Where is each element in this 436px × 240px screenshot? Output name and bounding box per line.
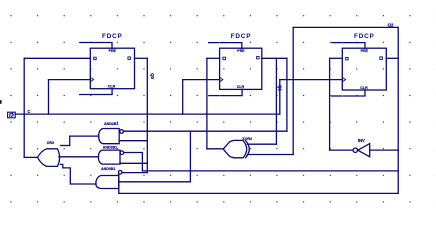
wire AND1 inverted input long [124,130,287,132]
wire INV input [370,149,399,151]
wire XOR output [207,148,223,150]
wire net Q2 right vertical [397,27,399,193]
wire AND3 output dogleg to OR3 in3 [60,164,96,184]
svg-text:CLR: CLR [360,86,368,90]
wire XOR in2 [248,154,294,156]
wire U2 C pin [183,79,220,81]
svg-text:PRE: PRE [109,49,117,53]
wire XOR out to U2 D vertical [206,58,208,149]
gate OR3 [38,149,60,167]
wire U3 CLR dash [332,95,342,97]
wire U3 PRE dash [332,42,342,44]
wire U3 CLR [343,90,365,96]
gate XOR2 [223,140,249,157]
svg-text:INV: INV [358,138,365,143]
wire U1 Q pin [135,57,148,59]
svg-text:Q2: Q2 [388,23,394,28]
wire long net y171 [142,170,398,172]
wire net Q2 top feedback [293,26,398,28]
wire net Q1 drop to AND1 input [286,58,288,131]
wire U2 D pin [207,57,220,59]
svg-text:AND3B1: AND3B1 [101,167,115,171]
flip-flop U1 FDCP [90,48,134,88]
wire U1 PRE [91,43,113,49]
wire U1 D pin [24,57,90,59]
svg-text:FDCP: FDCP [354,33,375,40]
ruler tick left edge [0,100,2,104]
svg-text:FDCP: FDCP [102,33,123,40]
svg-text:Q0: Q0 [150,73,155,79]
svg-text:FDCP: FDCP [231,33,252,40]
wire OR3 out to U1 D vertical [23,58,25,157]
svg-text:AND2B1: AND2B1 [103,146,117,150]
svg-text:Q1: Q1 [277,85,282,91]
wire clock riser to U3 C [279,80,281,115]
svg-text:XOR2: XOR2 [242,137,252,141]
wire OR3 output [24,156,37,158]
wire AND1 in2 from Q0 [119,140,147,142]
svg-text:CLR: CLR [237,85,245,89]
gate INV [353,144,370,157]
wire drop to AND3 mid input [189,131,191,182]
gate U6 AND3B1 [96,171,122,194]
wire AND3 inverted input [122,172,147,174]
wire AND2 inverted input jog [124,153,143,171]
svg-text:C: C [27,109,30,114]
wire OR3 in1 [61,145,70,147]
port C [8,112,16,118]
wire U1 C pin [49,79,91,81]
wire AND1 output [70,135,99,137]
gate U5 AND2B1 [98,150,123,164]
wire U2 PRE dash [209,42,219,44]
wire clock riser to U2 C [182,80,184,115]
wire net Q0 riser [146,58,148,172]
wire U1 CLR [80,89,112,95]
svg-text:PRE: PRE [237,49,245,53]
svg-text:AND2B1: AND2B1 [104,122,118,126]
wire clock riser to U1 C [48,80,50,115]
wire U1 PRE dash [80,42,90,44]
wire U3 C pin [280,79,343,81]
flip-flop U2 FDCP [220,48,262,89]
wire XOR in1 [248,143,277,145]
wire INV out to U3 D vertical [329,58,331,150]
wire INV output [330,149,353,151]
wire AND1 out drop [69,136,71,145]
gate U4 AND2B1 [99,129,124,144]
wire long net y193 [119,192,398,194]
wire AND2 output to OR3 in2 [59,156,99,158]
wire net Q1 riser to XOR in1 [275,58,277,144]
wire AND2 in2 [120,162,147,164]
wire U3 D pin [330,57,343,59]
svg-text:PRE: PRE [361,49,369,53]
flip-flop U3 FDCP [342,48,386,90]
svg-text:CLR: CLR [108,85,116,89]
wire U3 PRE [343,43,365,49]
wire Q2 drop to XOR in2 [292,27,294,154]
wire U2 CLR dash [209,95,219,97]
wire AND3 mid input [119,181,191,183]
svg-text:OR3: OR3 [47,141,54,145]
wire U2 CLR [220,89,242,95]
wire clock horizontal [15,113,280,115]
wire U2 Q pin [262,57,287,59]
wire U3 Q pin [386,57,398,59]
wire U2 PRE [220,43,242,49]
